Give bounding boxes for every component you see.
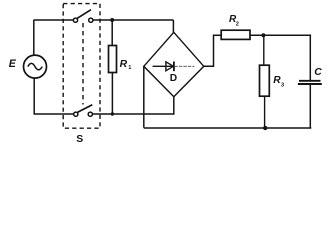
capacitor C — [298, 81, 322, 84]
label D — [170, 73, 177, 84]
switch S mechanical link (dashed) — [82, 23, 84, 105]
label S — [76, 134, 83, 145]
svg-text:D: D — [170, 73, 177, 84]
wire R3 top lead — [263, 35, 265, 65]
resistor R2 — [221, 30, 250, 39]
AC source E — [24, 55, 47, 78]
node junction dot at R3 top — [261, 33, 265, 37]
label R3 — [273, 75, 284, 88]
resistor R3 — [260, 65, 270, 96]
wire R1 bottom lead — [111, 73, 113, 115]
svg-text:2: 2 — [236, 22, 239, 28]
switch S dashed enclosure — [63, 4, 100, 129]
svg-text:1: 1 — [128, 65, 131, 71]
svg-text:R: R — [273, 75, 281, 86]
switch S top pole blade — [77, 10, 91, 19]
wire top (E to bridge top) — [34, 19, 174, 21]
svg-text:C: C — [314, 67, 322, 78]
diode symbol inside bridge — [153, 62, 195, 72]
wire E top lead — [33, 20, 35, 55]
label E — [9, 58, 17, 70]
wire R3 bottom lead — [264, 96, 266, 128]
wire lower rail (DC negative) — [144, 127, 311, 129]
wire bridge right corner to R2 — [204, 35, 221, 66]
label R1 — [120, 59, 132, 71]
wire C top lead — [309, 35, 311, 80]
wire bridge top stub — [172, 20, 174, 33]
svg-text:S: S — [76, 134, 83, 145]
wire bridge bottom corner to AC return — [173, 97, 175, 115]
node junction dot at R1 bottom — [111, 112, 114, 115]
wire R2 right to top-right corner — [250, 34, 311, 36]
switch S bottom pole blade — [78, 105, 93, 113]
node junction dot at R3 bottom — [263, 126, 267, 130]
wire R1 top lead — [111, 20, 113, 46]
switch S bottom pole contacts — [74, 112, 93, 116]
wire C bottom lead — [309, 85, 311, 128]
svg-text:E: E — [9, 58, 17, 70]
svg-text:R: R — [120, 59, 128, 70]
label R2 — [229, 14, 239, 28]
resistor R1 — [109, 46, 117, 73]
label C — [314, 67, 322, 78]
bridge rectifier D (diamond) — [144, 32, 204, 97]
svg-text:3: 3 — [281, 83, 284, 89]
switch S top pole contacts — [73, 18, 93, 22]
wire E bottom lead — [33, 78, 35, 114]
wire bottom (E return to bridge bottom) — [34, 113, 175, 115]
wire bridge left corner to lower rail (crosses AC return) — [143, 66, 145, 127]
node junction dot at R1 top — [110, 18, 114, 22]
